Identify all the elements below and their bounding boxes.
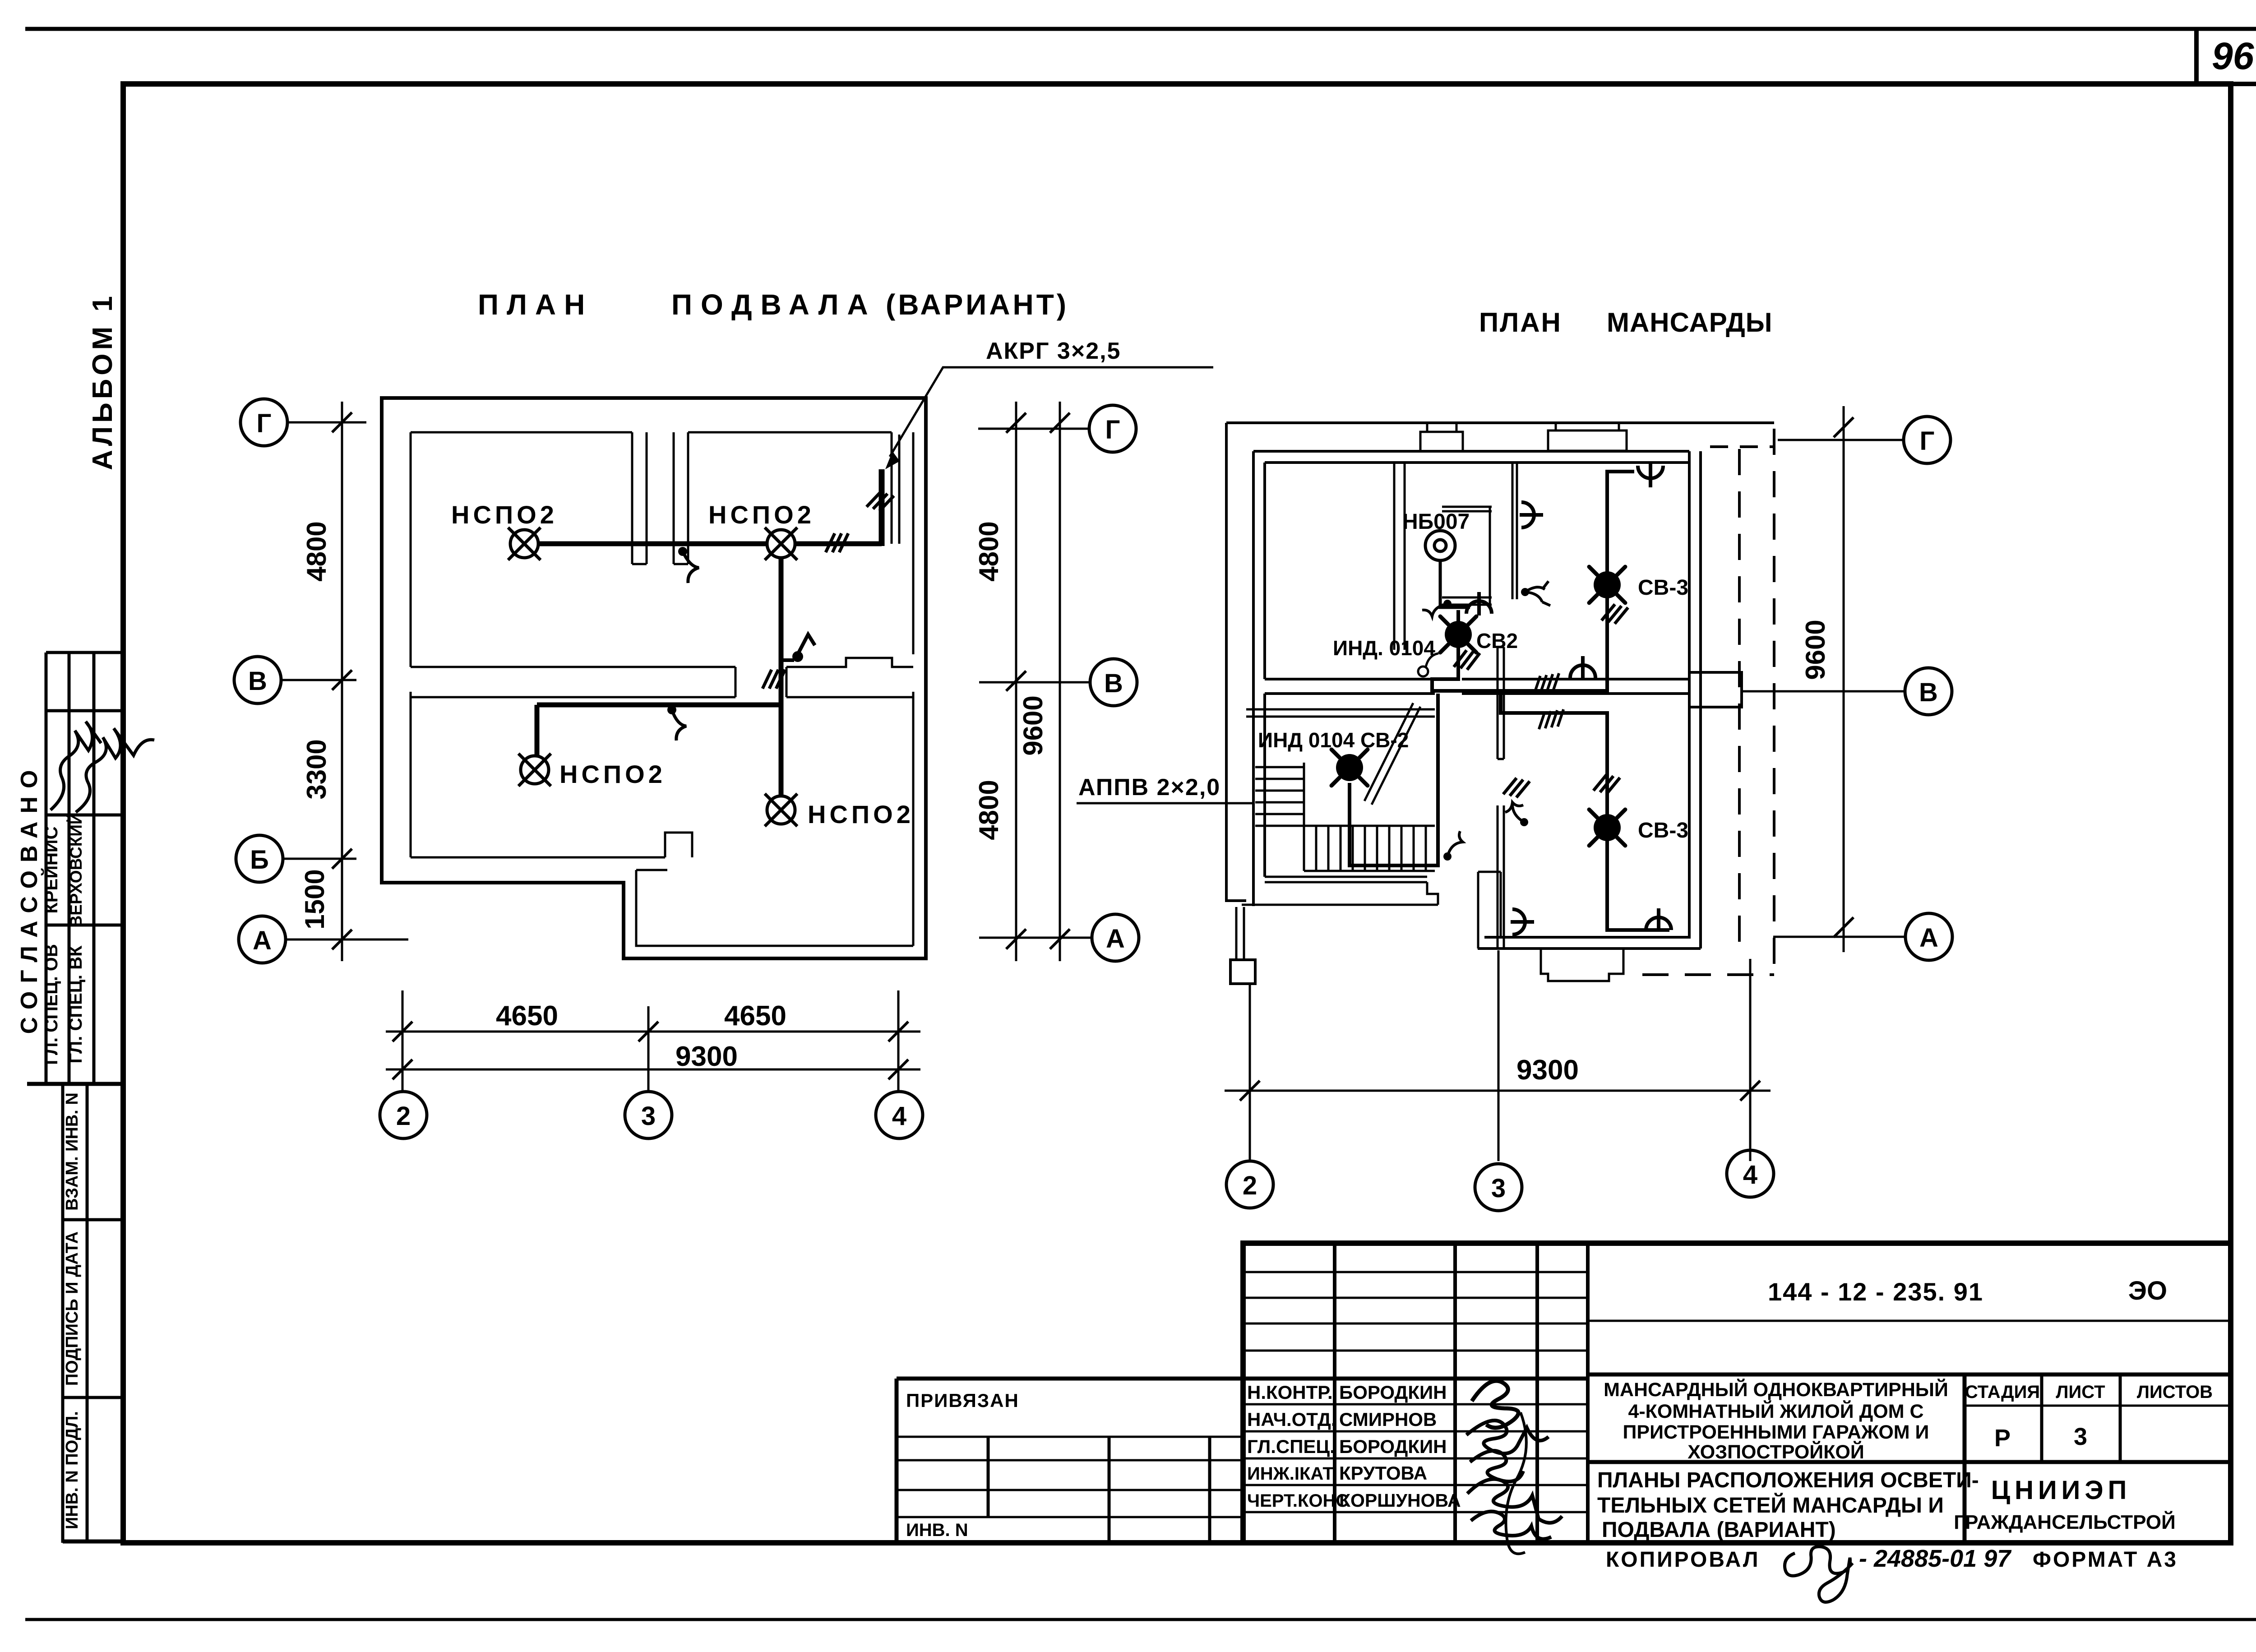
- basement inner wall left: [410, 432, 412, 857]
- lamp СВ-2 stairs: [1331, 750, 1368, 786]
- svg-text:9300: 9300: [1516, 1055, 1579, 1086]
- svg-text:ПОДВАЛА: ПОДВАЛА: [671, 288, 877, 321]
- svg-text:СМИРНОВ: СМИРНОВ: [1339, 1409, 1437, 1430]
- svg-text:ВЕРХОВСКИЙ: ВЕРХОВСКИЙ: [66, 813, 85, 928]
- wire stairs lamp run: [1350, 694, 1438, 865]
- lamp СВ-3 bottom: [1589, 810, 1625, 846]
- svg-text:НАЧ.ОТД.: НАЧ.ОТД.: [1247, 1409, 1336, 1430]
- svg-text:9300: 9300: [675, 1041, 738, 1072]
- svg-text:ГЛ. СПЕЦ. ВК: ГЛ. СПЕЦ. ВК: [66, 945, 86, 1064]
- svg-text:ТЕЛЬНЫХ СЕТЕЙ МАНСАРДЫ И: ТЕЛЬНЫХ СЕТЕЙ МАНСАРДЫ И: [1597, 1493, 1944, 1518]
- left grid verticals: [1335, 1243, 1588, 1543]
- right grid circle Г: [1089, 405, 1136, 452]
- lamp НБ007: [1425, 531, 1455, 560]
- bottom grid circle 2: [380, 1092, 427, 1138]
- svg-text:ФОРМАТ А3: ФОРМАТ А3: [2033, 1548, 2178, 1572]
- bottom grid axis 3 line: [647, 1006, 650, 1092]
- svg-text:ГРАЖДАНСЕЛЬСТРОЙ: ГРАЖДАНСЕЛЬСТРОЙ: [1954, 1510, 2176, 1533]
- sconce on partition top: [1520, 502, 1543, 528]
- svg-text:А: А: [1106, 924, 1125, 953]
- signature 2: [76, 728, 154, 812]
- attic right dim line: [1843, 406, 1845, 952]
- svg-text:МАНСАРДЫ: МАНСАРДЫ: [1607, 307, 1773, 338]
- svg-text:КОПИРОВАЛ: КОПИРОВАЛ: [1606, 1548, 1760, 1572]
- svg-text:А: А: [1919, 923, 1938, 953]
- basement inner wall top: [411, 432, 899, 544]
- svg-text:9600: 9600: [1800, 620, 1831, 680]
- АППВ leader line: [1077, 802, 1253, 805]
- svg-text:(ВАРИАНТ): (ВАРИАНТ): [886, 288, 1069, 321]
- right grid circle В: [1090, 659, 1137, 706]
- hatch on main run: [1532, 673, 1561, 693]
- switch stairs bottom: [1443, 852, 1452, 861]
- svg-text:ЦНИИЭП: ЦНИИЭП: [1991, 1476, 2131, 1505]
- attic grid leader А: [1773, 936, 1905, 938]
- lamp НСПО2 bottom-left: [518, 754, 551, 786]
- switch small left of СВ2 drop: [1418, 666, 1428, 676]
- attic dashed top right connector: [1710, 445, 1774, 448]
- svg-text:ИНВ. N ПОДЛ.: ИНВ. N ПОДЛ.: [63, 1411, 82, 1529]
- middle wall В axis: [411, 658, 913, 697]
- svg-text:4800: 4800: [974, 780, 1004, 840]
- bottom-left room inner wall: [411, 833, 692, 857]
- sheet top border: [25, 27, 2256, 31]
- svg-text:В: В: [1919, 678, 1938, 707]
- attic dashed roof edge right outer: [1773, 429, 1775, 975]
- right grid dim line inner: [1015, 402, 1017, 961]
- sheet bottom border: [25, 1618, 2256, 1621]
- hatch on cable riser: [867, 489, 894, 514]
- attic right wall: [1689, 451, 1701, 949]
- two-gang switch right of partition: [1521, 588, 1529, 596]
- stage column divider: [1963, 1374, 1967, 1543]
- duct shaft walls: [632, 432, 688, 564]
- svg-text:96: 96: [2212, 35, 2255, 77]
- bottom middle bay: [1478, 872, 1501, 949]
- attic grid leader Г: [1778, 439, 1904, 441]
- title block outer box: [1243, 1243, 2231, 1543]
- svg-text:СТАДИЯ: СТАДИЯ: [1965, 1382, 2040, 1402]
- right part: doc number band: [1588, 1320, 2231, 1322]
- attic bottom wall left section: [1242, 877, 1438, 905]
- svg-text:В: В: [248, 666, 267, 696]
- svg-text:СОГЛАСОВАНО: СОГЛАСОВАНО: [16, 762, 42, 1034]
- ПРИВЯЗАН inner lines: [897, 1437, 1243, 1517]
- right grid leader Г: [978, 428, 1089, 430]
- right grid dim line outer: [1059, 402, 1061, 961]
- svg-text:КРУТОВА: КРУТОВА: [1339, 1462, 1427, 1484]
- thick row divider: [897, 1377, 1588, 1381]
- bottom grid axis 4 line: [897, 990, 900, 1092]
- svg-text:ПЛАН: ПЛАН: [1479, 307, 1562, 338]
- svg-text:СВ-3: СВ-3: [1638, 576, 1688, 600]
- svg-text:4: 4: [892, 1101, 906, 1131]
- svg-text:ИНД 0104 СВ-2: ИНД 0104 СВ-2: [1258, 728, 1409, 752]
- svg-text:ИНВ. N: ИНВ. N: [906, 1520, 968, 1540]
- lamp СВ-3 top: [1589, 567, 1625, 603]
- bottom grid circle 4: [876, 1092, 923, 1138]
- chimney box 2: [1548, 423, 1627, 451]
- svg-text:МАНСАРДНЫЙ ОДНОКВАРТИРНЫЙ: МАНСАРДНЫЙ ОДНОКВАРТИРНЫЙ: [1604, 1379, 1948, 1401]
- grid circle В: [234, 657, 281, 703]
- svg-text:НСПО2: НСПО2: [708, 500, 815, 529]
- hatch on lower run: [1537, 709, 1566, 729]
- stairs room top wall: [1246, 709, 1435, 717]
- left grid dimension line: [341, 402, 343, 961]
- wire СВ2 drop: [1432, 610, 1458, 694]
- svg-text:4650: 4650: [496, 1000, 558, 1032]
- attic top wall: [1253, 451, 1689, 463]
- svg-text:ПОДПИСЬ И ДАТА: ПОДПИСЬ И ДАТА: [63, 1231, 82, 1386]
- lamp НСПО2 top-right: [765, 528, 797, 560]
- svg-text:НБ007: НБ007: [1402, 510, 1470, 534]
- svg-text:ХОЗПОСТРОЙКОЙ: ХОЗПОСТРОЙКОЙ: [1687, 1441, 1864, 1463]
- left grid horizontals: [1243, 1272, 1588, 1512]
- switch S1: [678, 547, 687, 556]
- svg-text:4800: 4800: [974, 521, 1004, 581]
- basement inner wall right: [912, 432, 915, 946]
- hatch on wire right of lamp2: [826, 533, 848, 552]
- right grid leader А: [979, 937, 1092, 939]
- porch double lines left: [1236, 907, 1244, 960]
- attic grid circle А: [1905, 913, 1952, 960]
- svg-text:НСПО2: НСПО2: [559, 760, 666, 788]
- svg-text:ПЛАН: ПЛАН: [478, 288, 593, 321]
- svg-text:ЛИСТОВ: ЛИСТОВ: [2137, 1382, 2213, 1402]
- attic axis 2 line: [1249, 984, 1251, 1161]
- cable arrowhead: [885, 451, 900, 469]
- svg-text:4: 4: [1743, 1160, 1757, 1189]
- two-gang switch lower partition: [1520, 818, 1528, 826]
- svg-text:НСПО2: НСПО2: [451, 500, 558, 529]
- copier signature: [1784, 1546, 1853, 1602]
- lamp НСПО2 top-left: [508, 528, 541, 560]
- svg-text:ИНД. 0104: ИНД. 0104: [1333, 636, 1435, 660]
- svg-text:ЧЕРТ.КОНС: ЧЕРТ.КОНС: [1247, 1491, 1349, 1511]
- signatures column scribbles: [1472, 1381, 1518, 1428]
- right grid circle А: [1092, 914, 1139, 961]
- svg-text:АППВ 2×2,0: АППВ 2×2,0: [1078, 774, 1220, 801]
- sconce at niche bottom: [1466, 592, 1492, 615]
- attic grid circle 4: [1727, 1150, 1774, 1197]
- wire: riser to cable entry: [879, 469, 885, 546]
- attic left wall: [1253, 451, 1265, 906]
- grid circle Б: [236, 835, 283, 882]
- attic axis 3 line: [1498, 950, 1500, 1161]
- svg-text:АЛЬБОМ 1: АЛЬБОМ 1: [87, 292, 118, 470]
- svg-text:ПРИСТРОЕННЫМИ ГАРАЖОМ И: ПРИСТРОЕННЫМИ ГАРАЖОМ И: [1623, 1421, 1929, 1443]
- svg-text:2: 2: [1243, 1171, 1257, 1200]
- attic grid circle Г: [1904, 416, 1951, 463]
- switch S3: [667, 705, 676, 714]
- svg-text:БОРОДКИН: БОРОДКИН: [1339, 1382, 1447, 1403]
- stairs upper flight: [1255, 763, 1304, 871]
- grid leader Б: [283, 858, 356, 860]
- lamp НСПО2 bottom-right: [765, 794, 797, 826]
- sconce on lower partition: [1511, 909, 1534, 935]
- hatch on lower partition wire: [1503, 776, 1530, 800]
- svg-text:ВЗАМ. ИНВ. N: ВЗАМ. ИНВ. N: [63, 1092, 82, 1211]
- thin partition below niche: [1498, 647, 1504, 759]
- signature 1: [51, 722, 101, 810]
- svg-text:2: 2: [396, 1101, 411, 1131]
- page number box: [2194, 29, 2199, 86]
- svg-text:ГЛ. СПЕЦ. ОВ: ГЛ. СПЕЦ. ОВ: [42, 944, 61, 1065]
- sconce bottom room right: [1646, 908, 1671, 932]
- attic grid circle 3: [1475, 1164, 1522, 1211]
- bottom step inner wall: [636, 870, 913, 946]
- wire: lamp3 stem: [535, 705, 540, 755]
- svg-text:ПРИВЯЗАН: ПРИВЯЗАН: [906, 1390, 1019, 1411]
- lamp СВ2 upper: [1440, 616, 1476, 652]
- svg-text:3: 3: [641, 1101, 656, 1131]
- svg-text:Г: Г: [1105, 415, 1120, 444]
- grid circle А: [239, 916, 286, 963]
- sconce on top wall: [1638, 464, 1663, 487]
- attic grid leader В: [1743, 690, 1905, 693]
- svg-text:3: 3: [2074, 1423, 2087, 1450]
- svg-text:СВ-3: СВ-3: [1638, 819, 1688, 842]
- svg-text:В: В: [1104, 669, 1123, 698]
- bottom grid axis 2 line: [402, 990, 404, 1092]
- svg-text:ПОДВАЛА (ВАРИАНТ): ПОДВАЛА (ВАРИАНТ): [1602, 1518, 1836, 1542]
- attic axis 4 line: [1749, 959, 1752, 1161]
- svg-text:Н.КОНТР.: Н.КОНТР.: [1247, 1382, 1333, 1403]
- svg-text:ЛИСТ: ЛИСТ: [2056, 1382, 2105, 1402]
- attic bottom dim line: [1225, 1090, 1771, 1092]
- svg-text:Г: Г: [1920, 426, 1935, 456]
- svg-text:3300: 3300: [301, 739, 332, 799]
- attic dashed bottom edge: [1642, 973, 1774, 976]
- bottom porch steps: [1541, 949, 1623, 981]
- attic grid circle В: [1905, 668, 1952, 715]
- cable leader АКРГ: [890, 367, 1213, 457]
- svg-text:9600: 9600: [1018, 695, 1048, 755]
- right grid leader В: [979, 681, 1090, 684]
- svg-text:144 - 12 - 235. 91: 144 - 12 - 235. 91: [1768, 1277, 1983, 1306]
- grid leader В: [281, 679, 356, 681]
- approval table: [27, 652, 123, 1084]
- svg-text:ЭО: ЭО: [2128, 1276, 2167, 1305]
- wire main run to right rooms: [1432, 472, 1634, 691]
- chimney box 1: [1420, 423, 1463, 451]
- niche walls: [1442, 507, 1492, 605]
- inventory table: [63, 1084, 123, 1543]
- svg-text:Р: Р: [1994, 1425, 2011, 1452]
- hatch below СВ2: [1454, 648, 1480, 671]
- attic bottom wall right section: [1478, 937, 1701, 949]
- svg-text:БОРОДКИН: БОРОДКИН: [1339, 1436, 1447, 1457]
- attic В wall: [1265, 679, 1689, 694]
- bottom dim line upper: [386, 1031, 920, 1033]
- wire: lamp2 vertical run: [779, 544, 784, 810]
- hatch on top room wire: [1602, 602, 1628, 626]
- svg-text:СВ2: СВ2: [1476, 629, 1518, 652]
- stairs railing: [1364, 703, 1420, 805]
- svg-text:4-КОМНАТНЫЙ ЖИЛОЙ ДОМ С: 4-КОМНАТНЫЙ ЖИЛОЙ ДОМ С: [1628, 1400, 1923, 1422]
- svg-text:- 24885-01 97: - 24885-01 97: [1859, 1545, 2012, 1572]
- svg-text:ГЛ.СПЕЦ.: ГЛ.СПЕЦ.: [1247, 1436, 1335, 1457]
- hatch below В wall on wire: [763, 670, 785, 689]
- wire: bottom horizontal run: [537, 703, 781, 708]
- attic dashed roof edge right inner: [1738, 449, 1741, 949]
- svg-text:Г: Г: [257, 409, 272, 438]
- stairs lower flight treads: [1304, 826, 1435, 871]
- hatch on bottom room wire: [1594, 772, 1620, 796]
- attic outer roof outline left: [1226, 423, 1246, 901]
- svg-text:ПЛАНЫ РАСПОЛОЖЕНИЯ ОСВЕТИ-: ПЛАНЫ РАСПОЛОЖЕНИЯ ОСВЕТИ-: [1597, 1468, 1979, 1492]
- grid leader А: [286, 939, 408, 941]
- bottom dim line lower: [386, 1069, 920, 1071]
- svg-text:ИНЖ.IКАТ.: ИНЖ.IКАТ.: [1247, 1464, 1336, 1484]
- wire lower room run: [1501, 694, 1669, 930]
- switch S2: [781, 658, 794, 662]
- svg-text:КОРШУНОВА: КОРШУНОВА: [1339, 1490, 1461, 1511]
- basement outer wall: [382, 398, 926, 958]
- svg-text:Б: Б: [250, 845, 269, 875]
- wire: top horizontal run: [524, 541, 882, 546]
- attic grid circle 2: [1226, 1161, 1273, 1208]
- bottom grid circle 3: [625, 1092, 672, 1138]
- В wall protrusion right: [1689, 672, 1742, 707]
- svg-text:АКРГ 3×2,5: АКРГ 3×2,5: [986, 338, 1121, 364]
- porch box: [1230, 960, 1255, 984]
- grid circle Г: [240, 399, 287, 446]
- svg-text:3: 3: [1491, 1174, 1506, 1203]
- ПРИВЯЗАН table top: [895, 1379, 899, 1543]
- partition top-left room: [1394, 463, 1405, 650]
- svg-text:КРЕЙНИС: КРЕЙНИС: [41, 826, 61, 913]
- svg-text:А: А: [253, 926, 272, 955]
- svg-text:1500: 1500: [300, 869, 330, 929]
- wire НБ007 stem: [1440, 560, 1470, 607]
- sconce on В wall: [1570, 656, 1595, 680]
- attic outer roof outline top: [1226, 421, 1774, 424]
- svg-text:4800: 4800: [301, 521, 332, 581]
- thin partition lower right of stairs: [1498, 805, 1504, 949]
- partition middle-right: [1512, 463, 1517, 599]
- svg-text:4650: 4650: [724, 1000, 786, 1032]
- svg-text:НСПО2: НСПО2: [808, 800, 914, 828]
- switch near СВ2: [1443, 600, 1452, 608]
- grid leader Г: [287, 421, 366, 424]
